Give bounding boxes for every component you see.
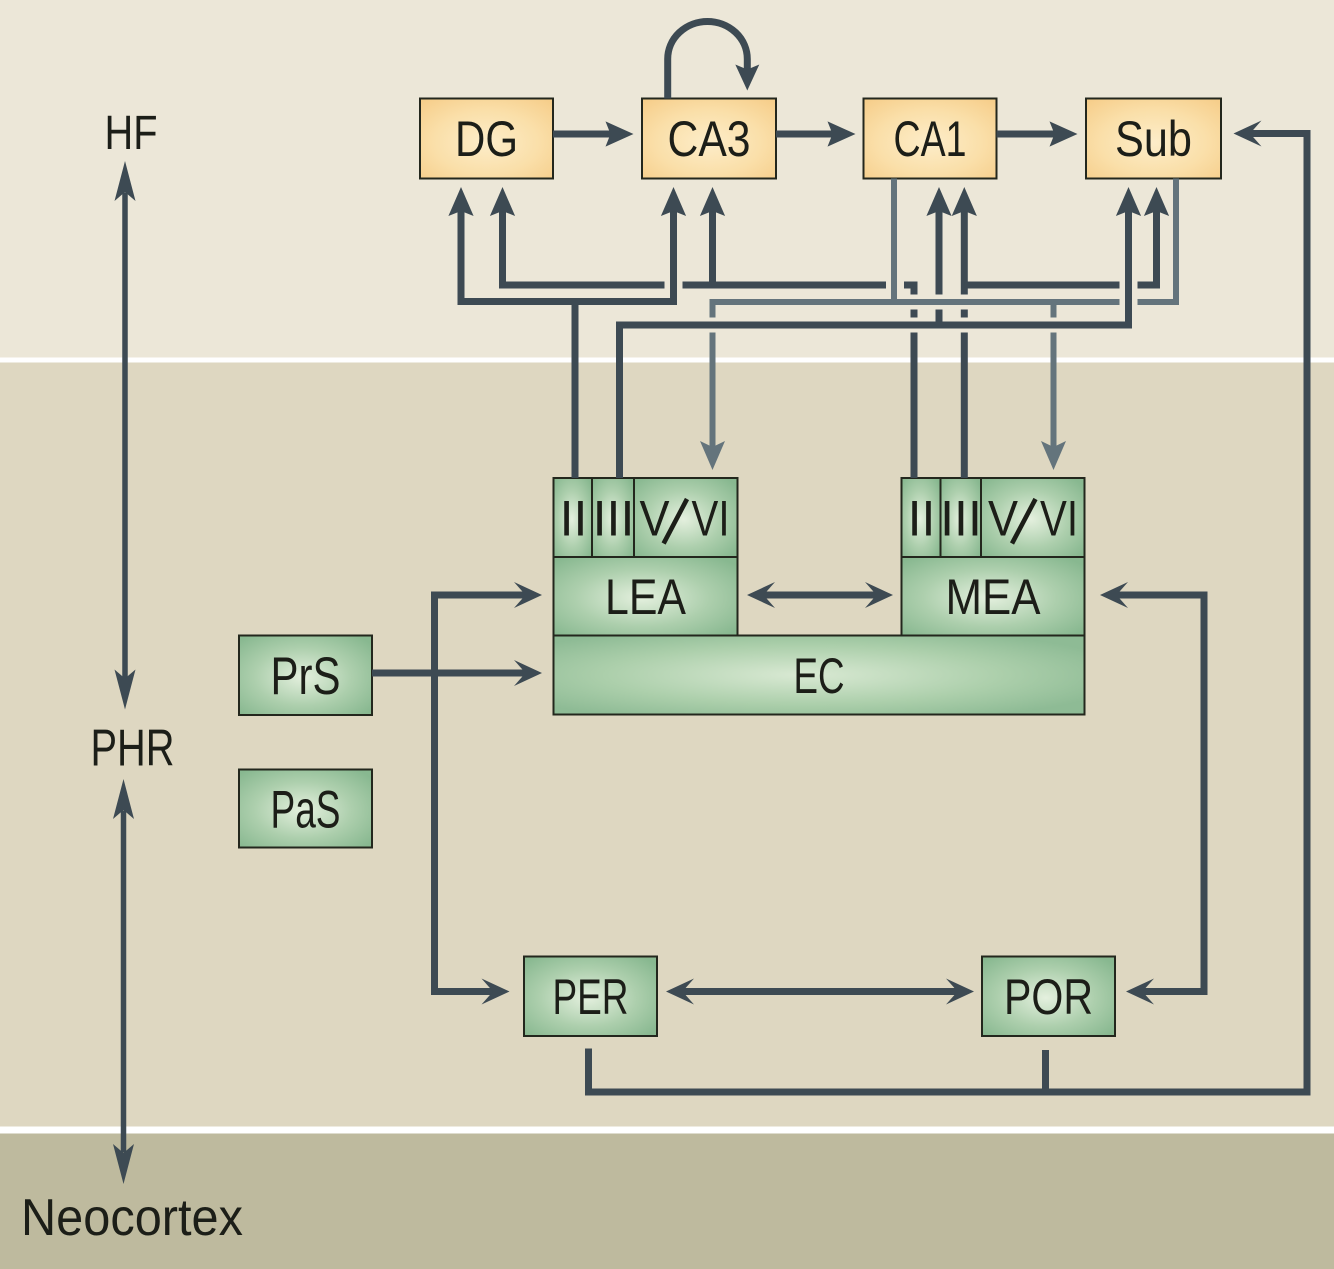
svg-text:PHR: PHR: [91, 720, 175, 778]
svg-text:II: II: [560, 491, 588, 547]
svg-text:III: III: [593, 491, 635, 547]
svg-text:PrS: PrS: [271, 647, 341, 706]
svg-text:Sub: Sub: [1115, 111, 1192, 167]
svg-text:Neocortex: Neocortex: [21, 1189, 243, 1247]
svg-text:CA1: CA1: [894, 111, 967, 167]
svg-text:II: II: [908, 491, 936, 547]
svg-text:MEA: MEA: [946, 569, 1042, 625]
svg-text:PaS: PaS: [271, 781, 341, 840]
svg-text:DG: DG: [455, 111, 518, 167]
svg-text:POR: POR: [1004, 969, 1093, 1025]
svg-text:EC: EC: [794, 648, 845, 704]
svg-text:VI: VI: [692, 491, 730, 547]
svg-text:HF: HF: [105, 107, 158, 160]
svg-text:PER: PER: [553, 969, 629, 1025]
svg-text:VI: VI: [1040, 491, 1078, 547]
svg-text:CA3: CA3: [668, 111, 751, 167]
svg-text:LEA: LEA: [605, 569, 687, 625]
svg-text:III: III: [940, 491, 982, 547]
